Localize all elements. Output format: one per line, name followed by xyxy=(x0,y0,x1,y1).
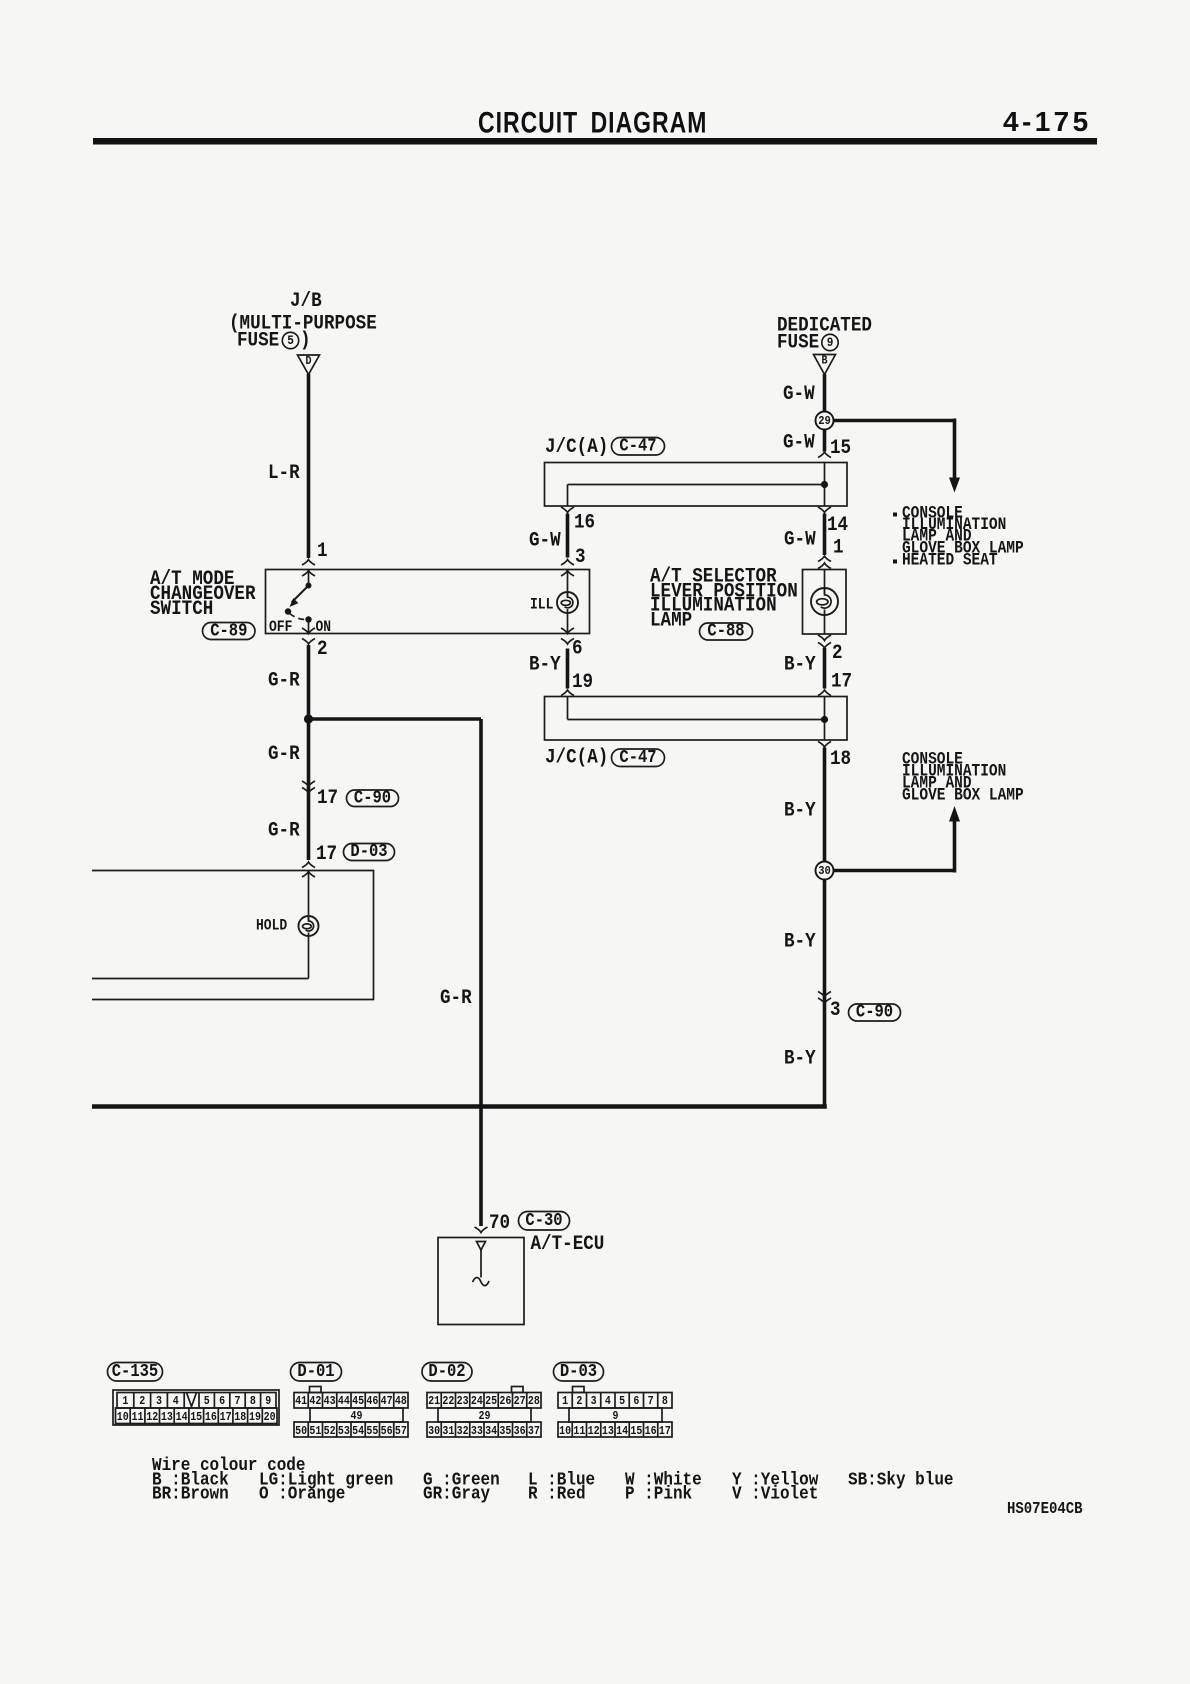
svg-text:36: 36 xyxy=(514,1425,526,1438)
svg-text:B: B xyxy=(821,355,827,368)
svg-text:17: 17 xyxy=(316,842,337,866)
svg-text:9: 9 xyxy=(265,1395,271,1408)
svg-text:1: 1 xyxy=(833,535,844,559)
svg-text:16: 16 xyxy=(574,510,595,534)
svg-text:6: 6 xyxy=(572,636,583,660)
svg-text:54: 54 xyxy=(352,1425,364,1438)
svg-text:ON: ON xyxy=(316,619,332,636)
svg-text:V :Violet: V :Violet xyxy=(732,1483,818,1505)
svg-text:CIRCUIT DIAGRAM: CIRCUIT DIAGRAM xyxy=(478,106,707,140)
svg-text:17: 17 xyxy=(831,669,852,693)
svg-text:G-W: G-W xyxy=(529,528,561,552)
svg-text:34: 34 xyxy=(485,1425,497,1438)
svg-text:3: 3 xyxy=(575,545,586,569)
svg-text:15: 15 xyxy=(830,436,851,460)
svg-text:23: 23 xyxy=(457,1395,469,1408)
svg-text:52: 52 xyxy=(324,1425,336,1438)
svg-text:HOLD: HOLD xyxy=(256,918,287,935)
svg-text:43: 43 xyxy=(324,1395,336,1408)
svg-text:6: 6 xyxy=(219,1395,225,1408)
svg-text:C-30: C-30 xyxy=(525,1211,562,1231)
svg-text:12: 12 xyxy=(588,1425,600,1438)
svg-text:D-03: D-03 xyxy=(560,1362,597,1382)
svg-text:16: 16 xyxy=(205,1411,217,1424)
svg-text:B-Y: B-Y xyxy=(784,798,816,822)
svg-text:49: 49 xyxy=(351,1410,363,1423)
svg-text:30: 30 xyxy=(428,1425,440,1438)
svg-text:15: 15 xyxy=(190,1411,202,1424)
svg-text:17: 17 xyxy=(317,786,338,810)
svg-text:GLOVE BOX LAMP: GLOVE BOX LAMP xyxy=(902,786,1024,805)
svg-text:13: 13 xyxy=(161,1411,173,1424)
svg-text:32: 32 xyxy=(457,1425,469,1438)
svg-text:37: 37 xyxy=(528,1425,540,1438)
svg-text:14: 14 xyxy=(176,1411,188,1424)
svg-text:5: 5 xyxy=(619,1395,625,1408)
svg-text:3: 3 xyxy=(830,998,841,1022)
svg-text:10: 10 xyxy=(117,1411,129,1424)
svg-text:35: 35 xyxy=(499,1425,511,1438)
svg-text:2: 2 xyxy=(317,637,328,661)
svg-text:24: 24 xyxy=(471,1395,483,1408)
svg-text:8: 8 xyxy=(250,1395,256,1408)
svg-text:28: 28 xyxy=(528,1395,540,1408)
svg-text:FUSE: FUSE xyxy=(237,328,279,352)
svg-text:8: 8 xyxy=(662,1395,668,1408)
svg-text:70: 70 xyxy=(489,1211,510,1235)
svg-text:26: 26 xyxy=(499,1395,511,1408)
svg-text:18: 18 xyxy=(234,1411,246,1424)
svg-text:33: 33 xyxy=(471,1425,483,1438)
svg-text:47: 47 xyxy=(381,1395,393,1408)
svg-text:41: 41 xyxy=(295,1395,307,1408)
svg-text:2: 2 xyxy=(832,641,843,665)
svg-text:19: 19 xyxy=(572,670,593,694)
svg-text:HEATED SEAT: HEATED SEAT xyxy=(902,551,998,570)
svg-text:B-Y: B-Y xyxy=(784,929,816,953)
svg-text:B-Y: B-Y xyxy=(529,652,561,676)
svg-text:44: 44 xyxy=(338,1395,350,1408)
svg-text:5: 5 xyxy=(287,333,294,348)
svg-text:G-R: G-R xyxy=(268,742,300,766)
svg-text:55: 55 xyxy=(366,1425,378,1438)
svg-text:11: 11 xyxy=(573,1425,585,1438)
svg-text:12: 12 xyxy=(146,1411,158,1424)
svg-text:3: 3 xyxy=(591,1395,597,1408)
svg-text:17: 17 xyxy=(659,1425,671,1438)
svg-text:C-135: C-135 xyxy=(112,1362,158,1382)
svg-text:BR:Brown: BR:Brown xyxy=(152,1483,229,1505)
svg-text:G-R: G-R xyxy=(268,818,300,842)
svg-text:G-W: G-W xyxy=(783,430,815,454)
svg-text:1: 1 xyxy=(317,539,328,563)
svg-text:A/T-ECU: A/T-ECU xyxy=(531,1232,605,1256)
svg-text:B-Y: B-Y xyxy=(784,652,816,676)
svg-text:27: 27 xyxy=(514,1395,526,1408)
svg-text:C-90: C-90 xyxy=(856,1002,893,1022)
svg-text:10: 10 xyxy=(559,1425,571,1438)
svg-text:ILL: ILL xyxy=(530,597,553,614)
svg-text:30: 30 xyxy=(818,864,831,878)
svg-text:29: 29 xyxy=(479,1410,491,1423)
svg-text:G-R: G-R xyxy=(440,986,472,1010)
svg-text:53: 53 xyxy=(338,1425,350,1438)
svg-text:4: 4 xyxy=(605,1395,611,1408)
svg-text:C-47: C-47 xyxy=(619,748,656,768)
svg-text:C-47: C-47 xyxy=(619,436,656,456)
svg-text:LAMP: LAMP xyxy=(650,608,692,632)
svg-text:20: 20 xyxy=(264,1411,276,1424)
svg-text:17: 17 xyxy=(220,1411,232,1424)
svg-text:P :Pink: P :Pink xyxy=(625,1483,692,1505)
svg-text:C-89: C-89 xyxy=(210,621,247,641)
svg-text:J/C(A): J/C(A) xyxy=(545,745,608,769)
svg-text:4: 4 xyxy=(173,1395,179,1408)
svg-text:OFF: OFF xyxy=(269,619,292,636)
svg-text:GR:Gray: GR:Gray xyxy=(423,1483,491,1505)
svg-text:D-01: D-01 xyxy=(297,1362,334,1382)
svg-text:R :Red: R :Red xyxy=(528,1483,586,1505)
svg-text:D: D xyxy=(305,355,311,368)
svg-text:25: 25 xyxy=(485,1395,497,1408)
svg-text:29: 29 xyxy=(818,414,831,428)
svg-text:9: 9 xyxy=(827,335,834,350)
svg-text:45: 45 xyxy=(352,1395,364,1408)
svg-text:18: 18 xyxy=(830,747,851,771)
svg-text:22: 22 xyxy=(442,1395,454,1408)
svg-text:57: 57 xyxy=(395,1425,407,1438)
svg-text:31: 31 xyxy=(442,1425,454,1438)
svg-text:13: 13 xyxy=(602,1425,614,1438)
svg-text:46: 46 xyxy=(366,1395,378,1408)
svg-text:SB:Sky blue: SB:Sky blue xyxy=(848,1469,954,1491)
svg-text:O :Orange: O :Orange xyxy=(259,1483,345,1505)
svg-text:D-03: D-03 xyxy=(350,842,387,862)
svg-text:L-R: L-R xyxy=(268,461,300,485)
svg-text:5: 5 xyxy=(204,1395,210,1408)
svg-text:7: 7 xyxy=(648,1395,654,1408)
svg-text:): ) xyxy=(300,328,311,352)
svg-text:42: 42 xyxy=(309,1395,321,1408)
svg-text:J/C(A): J/C(A) xyxy=(545,435,608,459)
svg-text:21: 21 xyxy=(428,1395,440,1408)
svg-text:G-R: G-R xyxy=(268,668,300,692)
svg-text:C-88: C-88 xyxy=(707,621,744,641)
svg-text:11: 11 xyxy=(132,1411,144,1424)
svg-text:48: 48 xyxy=(395,1395,407,1408)
svg-text:7: 7 xyxy=(234,1395,240,1408)
svg-text:6: 6 xyxy=(633,1395,639,1408)
svg-text:4-175: 4-175 xyxy=(1003,106,1092,137)
svg-text:56: 56 xyxy=(381,1425,393,1438)
svg-text:9: 9 xyxy=(612,1410,618,1423)
svg-text:51: 51 xyxy=(309,1425,321,1438)
svg-text:16: 16 xyxy=(645,1425,657,1438)
svg-text:1: 1 xyxy=(122,1395,128,1408)
svg-text:3: 3 xyxy=(156,1395,162,1408)
svg-text:2: 2 xyxy=(576,1395,582,1408)
svg-text:1: 1 xyxy=(562,1395,568,1408)
svg-text:C-90: C-90 xyxy=(354,788,391,808)
svg-text:14: 14 xyxy=(616,1425,628,1438)
svg-text:15: 15 xyxy=(630,1425,642,1438)
svg-text:SWITCH: SWITCH xyxy=(150,597,213,621)
svg-text:D-02: D-02 xyxy=(428,1362,465,1382)
svg-text:B-Y: B-Y xyxy=(784,1046,816,1070)
svg-text:J/B: J/B xyxy=(290,289,322,313)
svg-text:2: 2 xyxy=(139,1395,145,1408)
svg-text:G-W: G-W xyxy=(784,527,816,551)
svg-text:FUSE: FUSE xyxy=(777,330,819,354)
svg-text:14: 14 xyxy=(827,513,848,537)
svg-text:HS07E04CB: HS07E04CB xyxy=(1007,1499,1083,1518)
svg-text:G-W: G-W xyxy=(783,382,815,406)
svg-text:19: 19 xyxy=(249,1411,261,1424)
svg-text:50: 50 xyxy=(295,1425,307,1438)
